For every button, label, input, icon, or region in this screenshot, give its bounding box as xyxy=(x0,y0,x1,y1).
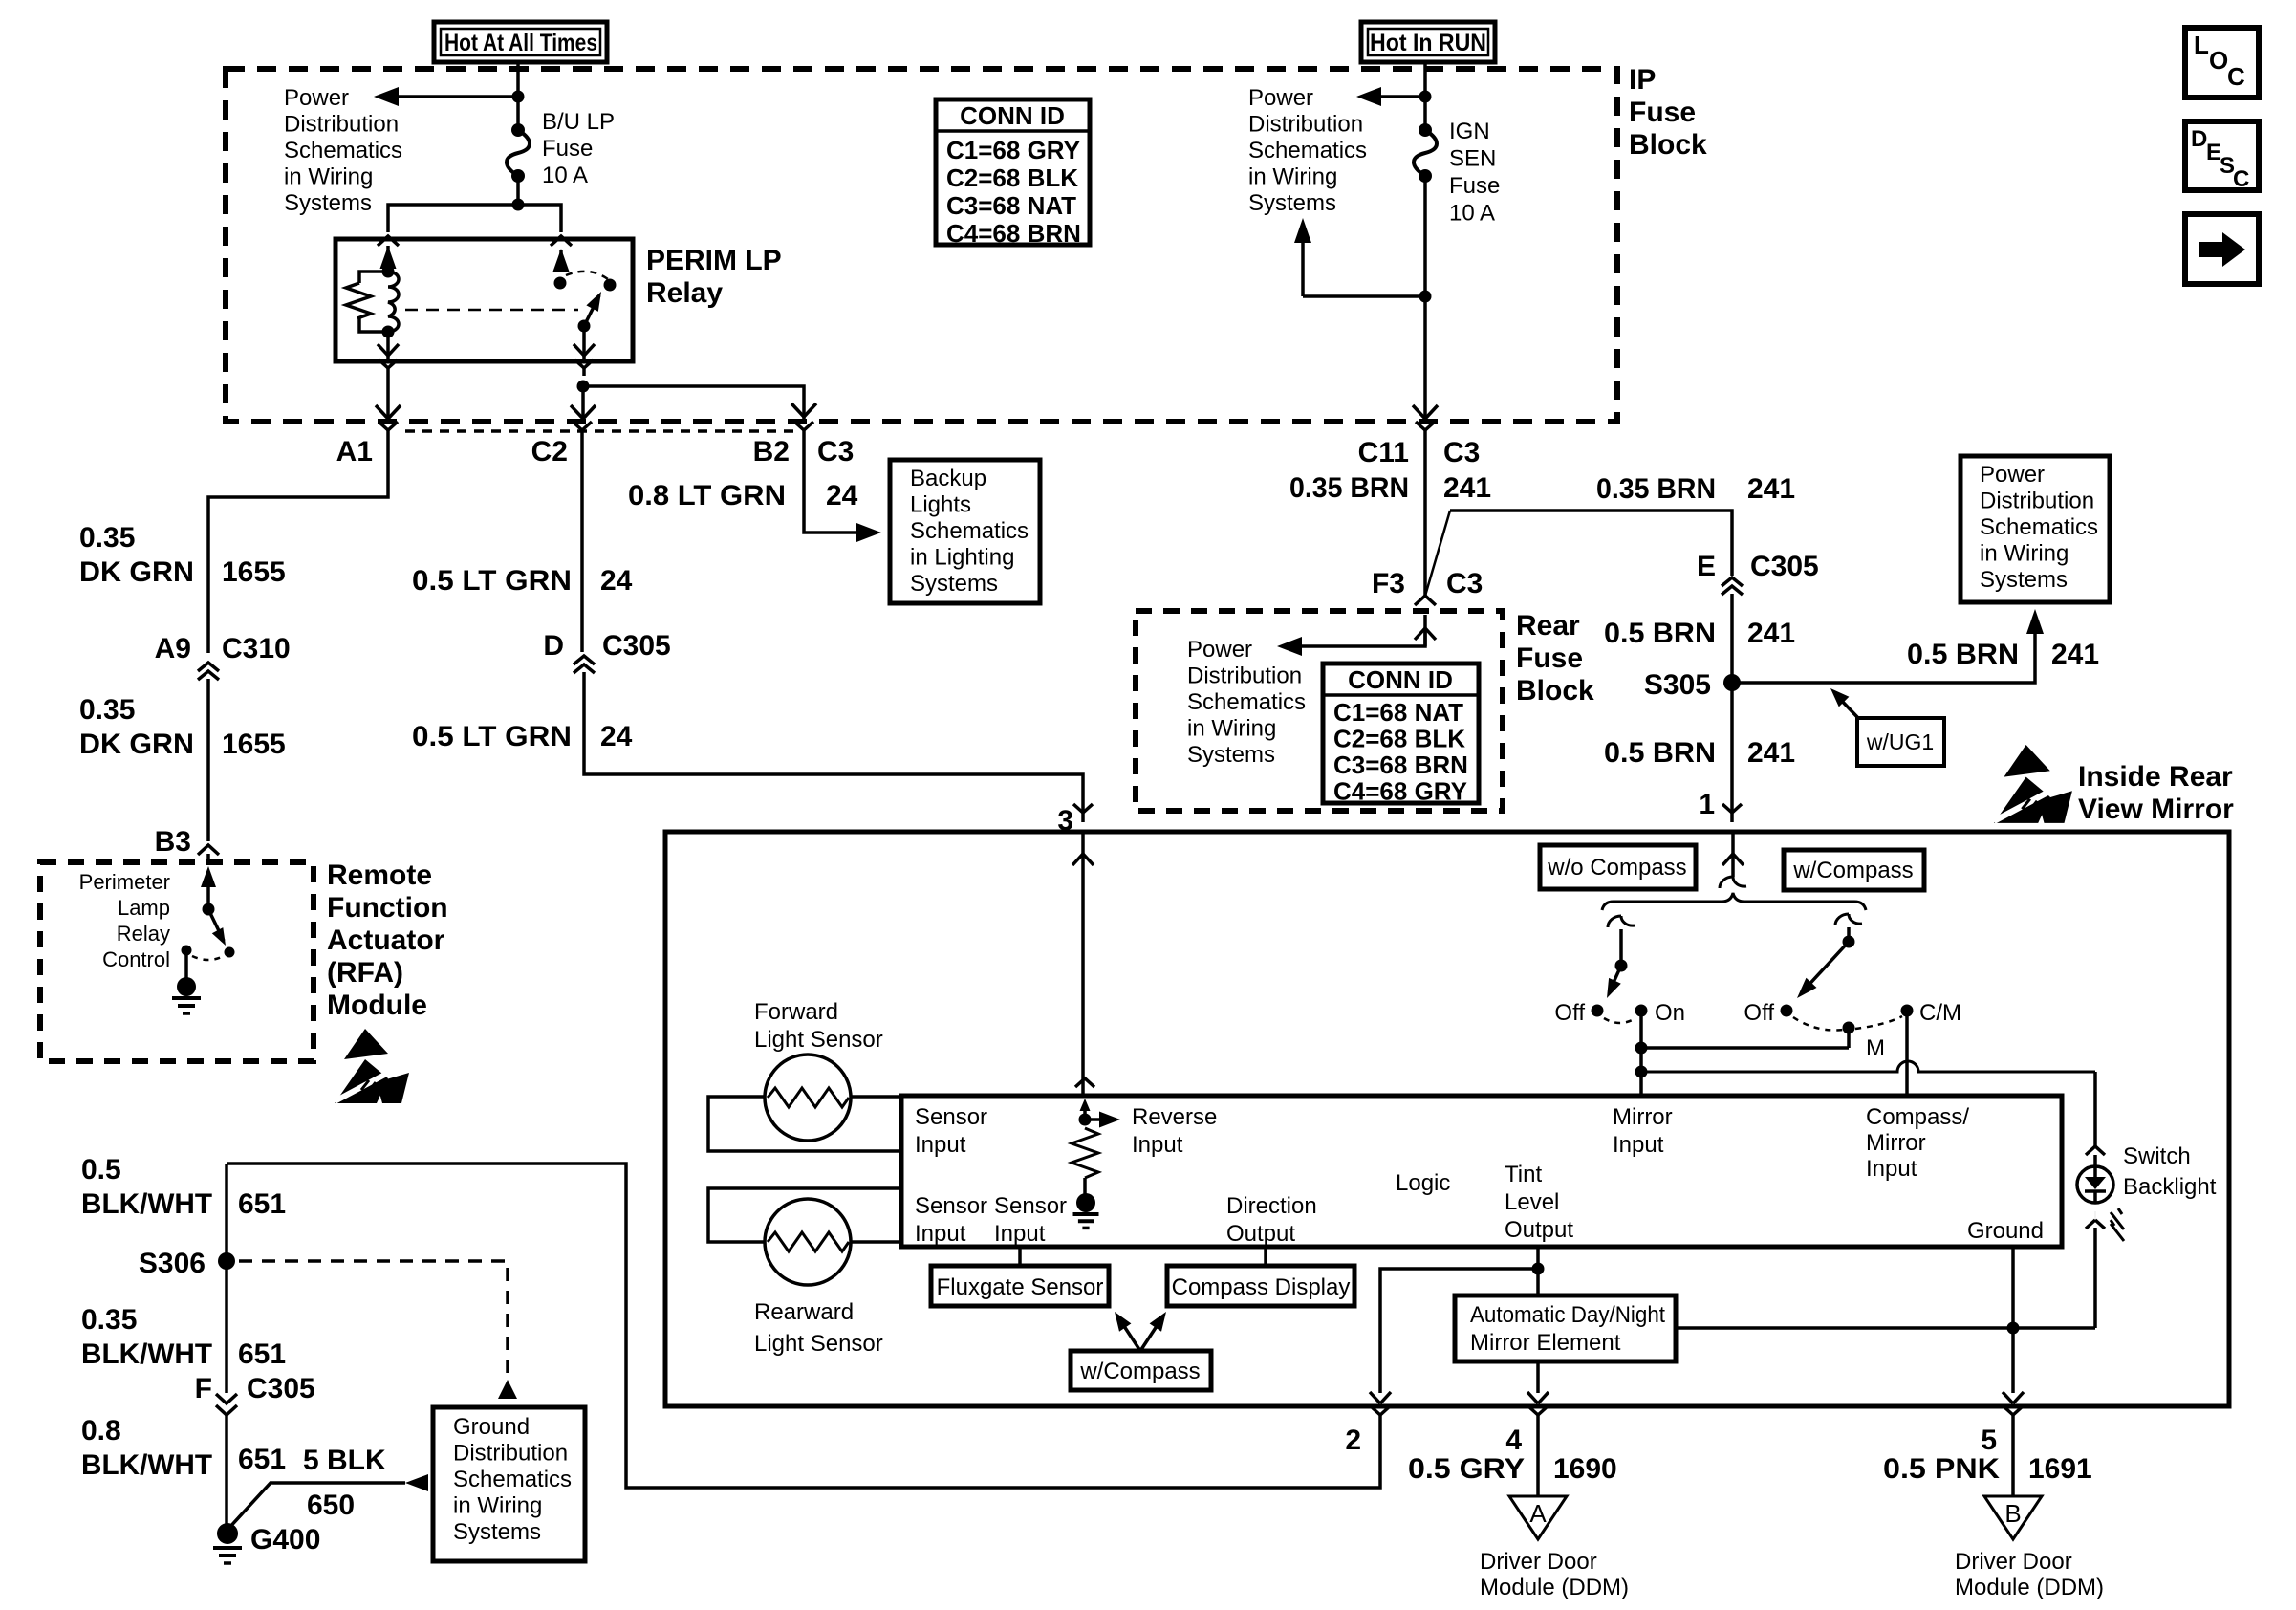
wire pin3 down to logic box xyxy=(1081,854,1085,1096)
connector F C305 double chevron (down) xyxy=(216,1394,237,1403)
chevron into logic box (sensor input) xyxy=(1075,1078,1094,1087)
svg-text:w/o Compass: w/o Compass xyxy=(1547,855,1686,881)
svg-text:241: 241 xyxy=(1747,737,1795,769)
svg-text:(RFA): (RFA) xyxy=(327,957,403,989)
svg-text:2: 2 xyxy=(1345,1425,1361,1456)
svg-text:PERIM LP: PERIM LP xyxy=(646,245,782,276)
svg-text:Relay: Relay xyxy=(646,277,723,309)
switch backlight LED chevron top xyxy=(2086,1146,2105,1155)
relay switch fixed contact dot xyxy=(554,277,567,290)
svg-text:E: E xyxy=(1697,551,1716,582)
svg-text:0.5 BRN: 0.5 BRN xyxy=(1604,618,1716,649)
svg-text:5: 5 xyxy=(1981,1425,1997,1456)
svg-text:Inside Rear: Inside Rear xyxy=(2078,761,2233,793)
connector Y below relay coil (IP block internal) xyxy=(379,359,388,368)
fuse B/U LP 10A xyxy=(511,123,525,137)
svg-text:On: On xyxy=(1655,1000,1685,1026)
svg-text:Off: Off xyxy=(1744,1000,1774,1026)
svg-text:L: L xyxy=(2194,31,2209,59)
svg-text:C4=68 BRN: C4=68 BRN xyxy=(946,219,1081,248)
svg-text:Schematics: Schematics xyxy=(453,1467,572,1492)
junction dot at B/U feed xyxy=(512,91,525,103)
wire E C305 down to S305 xyxy=(1730,594,1734,683)
svg-text:Input: Input xyxy=(1613,1132,1664,1158)
wire S306 down to F xyxy=(225,1261,228,1393)
svg-text:S305: S305 xyxy=(1644,669,1711,701)
ESD symbol (inside rear view mirror) xyxy=(1994,745,2072,823)
w/o compass switch hook xyxy=(1608,916,1621,927)
svg-text:Fuse: Fuse xyxy=(1449,173,1500,199)
connector Y below relay switch xyxy=(574,359,584,368)
svg-text:O: O xyxy=(2209,46,2228,75)
svg-text:in Wiring: in Wiring xyxy=(1187,716,1276,742)
svg-text:Power: Power xyxy=(1248,85,1313,111)
svg-text:Systems: Systems xyxy=(284,190,372,216)
svg-text:Output: Output xyxy=(1505,1217,1573,1243)
w/o compass switch wire xyxy=(1619,929,1623,962)
svg-text:C2=68 BLK: C2=68 BLK xyxy=(1333,725,1465,753)
connector B3 chevron xyxy=(198,845,219,855)
wire mirror element down to pin 4 xyxy=(1536,1361,1540,1393)
svg-text:BLK/WHT: BLK/WHT xyxy=(81,1449,212,1481)
arrow into connector row at A1 xyxy=(376,405,388,419)
switch backlight LED chevron bottom xyxy=(2086,1220,2095,1229)
wire On down to Mirror Input xyxy=(1639,1011,1643,1096)
triangle connector A xyxy=(1509,1496,1567,1539)
svg-text:Distribution: Distribution xyxy=(1248,112,1363,138)
wire sensor input to fluxgate sensor xyxy=(1018,1247,1022,1266)
junction dot IGN branch xyxy=(1419,291,1432,303)
connector pin 2 Y xyxy=(1371,1406,1380,1415)
arrow into mirror box pin 1 xyxy=(1731,834,1735,854)
svg-text:IP: IP xyxy=(1629,64,1656,96)
svg-text:in Wiring: in Wiring xyxy=(1980,541,2069,567)
RFA ESD symbol xyxy=(335,1029,409,1103)
svg-text:C2=68 BLK: C2=68 BLK xyxy=(946,163,1078,192)
w/o compass switch input dot xyxy=(1615,960,1628,972)
svg-text:Power: Power xyxy=(284,85,349,111)
wire C2 down to D xyxy=(580,440,584,652)
svg-text:Output: Output xyxy=(1226,1221,1295,1247)
svg-text:Control: Control xyxy=(102,947,170,971)
triangle connector B xyxy=(1984,1496,2042,1539)
splice S306 dot xyxy=(218,1252,235,1270)
svg-text:A: A xyxy=(1529,1499,1547,1528)
junction dot IGN feed xyxy=(1419,91,1432,103)
w/UG1 callout box xyxy=(1857,718,1944,766)
w/o Compass box xyxy=(1540,845,1696,889)
svg-text:Power: Power xyxy=(1187,637,1252,663)
arrow left to Power Distribution (IGN side) xyxy=(1374,95,1425,98)
wire S305 down to pin 1 xyxy=(1730,683,1734,811)
coupling hooks on pin1 wire xyxy=(1720,877,1733,888)
w/compass switch wire xyxy=(1847,927,1851,938)
svg-text:Backlight: Backlight xyxy=(2123,1174,2217,1200)
RFA switch arrow up from common xyxy=(206,880,210,909)
svg-text:Rearward: Rearward xyxy=(754,1299,854,1325)
Backup Lights Schematics box xyxy=(890,460,1040,603)
svg-text:C1=68 NAT: C1=68 NAT xyxy=(1333,698,1463,727)
reverse input ground symbol xyxy=(1073,1212,1099,1216)
svg-text:C3=68 NAT: C3=68 NAT xyxy=(946,191,1076,220)
junction dot tint/pin2 xyxy=(1532,1263,1545,1275)
svg-text:24: 24 xyxy=(826,480,858,511)
svg-text:Mirror Element: Mirror Element xyxy=(1470,1330,1621,1356)
w/compass switch input dot xyxy=(1843,936,1855,948)
splice S305 dot xyxy=(1723,674,1741,691)
reverse input arrow up xyxy=(1083,1107,1087,1120)
relay switch blade with arrowhead xyxy=(584,295,599,326)
connector B2/C3 Y xyxy=(794,422,804,430)
wire junction down to C2 row xyxy=(581,386,585,422)
svg-text:C4=68 GRY: C4=68 GRY xyxy=(1333,777,1467,806)
svg-text:C11: C11 xyxy=(1358,437,1409,468)
svg-text:Backup: Backup xyxy=(910,466,986,491)
RFA switch common dot xyxy=(203,903,215,916)
connector F3 chevron xyxy=(1415,596,1436,605)
svg-text:w/Compass: w/Compass xyxy=(1792,858,1913,883)
svg-text:Mirror: Mirror xyxy=(1866,1130,1926,1156)
wire pin1 down to coupling xyxy=(1731,854,1735,877)
svg-text:Logic: Logic xyxy=(1396,1170,1450,1196)
Rear Fuse Block dashed box xyxy=(1136,611,1503,811)
svg-text:in Wiring: in Wiring xyxy=(1248,164,1337,190)
svg-text:SEN: SEN xyxy=(1449,146,1496,172)
svg-text:Distribution: Distribution xyxy=(453,1441,568,1467)
svg-text:Driver Door: Driver Door xyxy=(1480,1549,1597,1575)
wire A1 down, left, down to A9 xyxy=(208,440,388,653)
svg-text:1691: 1691 xyxy=(2028,1453,2092,1485)
wire pin 4 down to triangle A xyxy=(1536,1425,1540,1496)
connector C2 Y xyxy=(573,422,582,430)
connector chevron into relay switch pin xyxy=(551,236,572,246)
svg-text:Schematics: Schematics xyxy=(1248,138,1367,163)
relay resistor (parallel with coil) xyxy=(359,272,388,283)
wire tint branch to pin 2 drop xyxy=(1380,1269,1538,1393)
wire 241 across to E C305 xyxy=(1450,511,1732,576)
connector E C305 double chevron xyxy=(1722,577,1743,586)
svg-text:Fuse: Fuse xyxy=(1629,97,1696,128)
svg-text:Fuse: Fuse xyxy=(1516,642,1583,674)
svg-text:C3: C3 xyxy=(1443,437,1480,468)
logic inner box xyxy=(901,1096,2062,1247)
wire pin 5 down to triangle B xyxy=(2011,1425,2015,1496)
svg-text:Ground: Ground xyxy=(1967,1218,2044,1244)
svg-text:in Wiring: in Wiring xyxy=(284,164,373,190)
Remote Function Actuator dashed box xyxy=(40,862,314,1061)
wire mirror element right to ground junction xyxy=(1676,1326,2095,1330)
svg-text:Function: Function xyxy=(327,892,448,924)
svg-text:Schematics: Schematics xyxy=(910,518,1029,544)
svg-text:0.5 PNK: 0.5 PNK xyxy=(1883,1453,2000,1485)
svg-text:C/M: C/M xyxy=(1919,1000,1961,1026)
svg-text:Systems: Systems xyxy=(1187,742,1275,768)
svg-text:0.5 BRN: 0.5 BRN xyxy=(1907,639,2019,670)
svg-text:1655: 1655 xyxy=(222,729,286,760)
svg-text:Forward: Forward xyxy=(754,999,838,1025)
svg-text:w/UG1: w/UG1 xyxy=(1866,729,1934,754)
rearward light sensor loop xyxy=(708,1188,901,1242)
svg-text:10 A: 10 A xyxy=(1449,201,1495,227)
relay coil bottom dot xyxy=(382,326,395,338)
svg-text:CONN ID: CONN ID xyxy=(960,101,1065,130)
arrow up into F3 inside rear fuse block xyxy=(1423,615,1427,646)
connector C11 Y xyxy=(1416,422,1425,430)
svg-text:DK GRN: DK GRN xyxy=(79,729,194,760)
connector row thin dashed line (C310 header) xyxy=(405,429,793,433)
svg-text:Sensor: Sensor xyxy=(994,1193,1067,1219)
svg-text:Input: Input xyxy=(1866,1156,1917,1182)
connector pin 3 Y xyxy=(1073,804,1083,813)
svg-text:Hot At All Times: Hot At All Times xyxy=(444,30,597,56)
w/Compass box xyxy=(1784,850,1924,890)
svg-text:0.5 GRY: 0.5 GRY xyxy=(1408,1453,1525,1485)
svg-text:Module (DDM): Module (DDM) xyxy=(1955,1575,2104,1600)
svg-text:C310: C310 xyxy=(222,633,291,664)
LOC reference box xyxy=(2185,28,2259,98)
svg-text:Block: Block xyxy=(1629,129,1707,161)
svg-text:Driver Door: Driver Door xyxy=(1955,1549,2072,1575)
wire C11 down to F3 xyxy=(1423,440,1427,596)
Fluxgate Sensor box xyxy=(931,1266,1109,1306)
svg-text:241: 241 xyxy=(1747,618,1795,649)
svg-text:Schematics: Schematics xyxy=(1980,514,2098,540)
svg-text:1690: 1690 xyxy=(1553,1453,1617,1485)
wire C/M down to Compass/Mirror Input xyxy=(1905,1011,1909,1096)
Ground Distribution Schematics box xyxy=(433,1407,585,1561)
connector A9 C310 double chevron xyxy=(198,663,219,671)
svg-text:Light Sensor: Light Sensor xyxy=(754,1027,883,1053)
svg-text:Light Sensor: Light Sensor xyxy=(754,1331,883,1357)
svg-text:0.35 BRN: 0.35 BRN xyxy=(1289,472,1409,504)
svg-text:Sensor: Sensor xyxy=(915,1193,987,1219)
S306 dashed branch to ground note xyxy=(239,1261,508,1379)
switch backlight LED xyxy=(2077,1166,2113,1203)
w/o compass Off contact dot xyxy=(1592,1005,1604,1017)
wire F3 down/left to power note arrow xyxy=(1295,628,1425,646)
svg-text:Systems: Systems xyxy=(1248,190,1336,216)
connector pin 5 Y xyxy=(2004,1406,2013,1415)
svg-text:Level: Level xyxy=(1505,1189,1559,1215)
Inside Rear View Mirror box xyxy=(665,832,2229,1406)
CONN ID table (rear fuse block) xyxy=(1323,664,1479,803)
svg-text:Module: Module xyxy=(327,990,427,1021)
svg-text:Relay: Relay xyxy=(117,922,170,946)
wire Hot In RUN down xyxy=(1423,63,1427,130)
G400 ground dot xyxy=(217,1523,238,1544)
svg-text:C3=68 BRN: C3=68 BRN xyxy=(1333,751,1468,779)
svg-text:24: 24 xyxy=(600,565,633,597)
svg-text:651: 651 xyxy=(238,1188,286,1220)
svg-text:Distribution: Distribution xyxy=(1980,489,2094,514)
relay switch common dot xyxy=(578,320,591,333)
RFA switch blade with arrowhead xyxy=(208,909,224,941)
svg-text:Compass Display: Compass Display xyxy=(1172,1274,1351,1300)
DESC reference box xyxy=(2185,121,2259,190)
svg-text:241: 241 xyxy=(2051,639,2099,670)
svg-text:Input: Input xyxy=(915,1221,966,1247)
svg-text:F: F xyxy=(195,1373,212,1404)
svg-text:24: 24 xyxy=(600,721,633,752)
relay switch output wire with arrow to C2 xyxy=(582,326,586,359)
svg-text:CONN ID: CONN ID xyxy=(1348,665,1453,694)
w/UG1 arrow to S305 wire xyxy=(1837,696,1858,718)
diagonal branch to 241 header xyxy=(1425,511,1450,596)
wire tint level output down xyxy=(1536,1247,1540,1295)
arrow into connector at C11 xyxy=(1413,405,1425,419)
svg-text:C3: C3 xyxy=(817,436,854,468)
svg-text:651: 651 xyxy=(238,1444,286,1475)
relay coil pin arrow (up) xyxy=(386,246,390,272)
svg-text:BLK/WHT: BLK/WHT xyxy=(81,1338,212,1370)
svg-text:S306: S306 xyxy=(139,1248,206,1279)
svg-text:10 A: 10 A xyxy=(542,163,588,188)
connector pin 4 Y xyxy=(1528,1406,1538,1415)
svg-text:Fuse: Fuse xyxy=(542,136,593,162)
svg-text:C3: C3 xyxy=(1446,568,1483,599)
wire fuse to relay feed split xyxy=(516,176,520,205)
svg-text:B: B xyxy=(2004,1499,2021,1528)
svg-text:Lamp: Lamp xyxy=(118,896,170,920)
svg-text:Distribution: Distribution xyxy=(1187,664,1302,689)
svg-text:0.35: 0.35 xyxy=(81,1304,137,1336)
svg-text:Actuator: Actuator xyxy=(327,925,445,956)
relay coil output wire with arrow to A1 xyxy=(386,332,390,359)
wire pin 2 down left and up (651 return) xyxy=(227,1164,1380,1488)
svg-text:in Wiring: in Wiring xyxy=(453,1493,542,1519)
arrow reference box xyxy=(2185,214,2259,284)
svg-text:in Lighting: in Lighting xyxy=(910,545,1014,571)
svg-text:F3: F3 xyxy=(1372,568,1405,599)
svg-text:Reverse: Reverse xyxy=(1132,1104,1217,1130)
wire 650 diagonal and across to ground note xyxy=(227,1483,405,1530)
svg-text:Schematics: Schematics xyxy=(1187,689,1306,715)
svg-text:241: 241 xyxy=(1747,473,1795,505)
wire from Hot At All Times down to B/U LP fuse xyxy=(516,63,520,130)
svg-text:B3: B3 xyxy=(155,826,191,858)
wire LED down to ground junction xyxy=(2093,1228,2097,1328)
svg-text:B2: B2 xyxy=(753,436,790,468)
svg-text:0.5 LT GRN: 0.5 LT GRN xyxy=(412,565,572,597)
CONN ID table (IP fuse block) xyxy=(936,99,1090,245)
relay PERIM LP box xyxy=(336,239,633,361)
RFA ground symbol xyxy=(172,996,201,1000)
w/compass Off contact dot xyxy=(1781,1005,1793,1017)
svg-text:BLK/WHT: BLK/WHT xyxy=(81,1188,212,1220)
svg-text:C305: C305 xyxy=(247,1373,315,1404)
connector A1 Y xyxy=(379,422,388,430)
relay switch NO contact dot xyxy=(604,279,617,292)
Power Distribution Schematics box (top right) xyxy=(1960,456,2110,602)
wire arrow left to Power Distribution (B/U side) xyxy=(392,95,518,98)
svg-text:IGN: IGN xyxy=(1449,119,1490,144)
svg-text:C2: C2 xyxy=(531,436,568,468)
relay switch pin arrow (up) xyxy=(559,250,563,271)
arrow into connector row at C3 drop xyxy=(791,403,804,417)
svg-text:C305: C305 xyxy=(1750,551,1819,582)
svg-text:1655: 1655 xyxy=(222,556,286,588)
svg-text:D: D xyxy=(543,630,564,662)
svg-text:651: 651 xyxy=(238,1338,286,1370)
svg-text:View Mirror: View Mirror xyxy=(2078,794,2234,825)
svg-text:C: C xyxy=(2227,62,2245,91)
w/compass M contact dot xyxy=(1843,1022,1855,1034)
wire split to relay coil and switch xyxy=(388,205,561,232)
w/Compass callout box (bottom) xyxy=(1071,1351,1211,1390)
svg-text:Off: Off xyxy=(1554,1000,1585,1026)
svg-text:0.8: 0.8 xyxy=(81,1415,121,1447)
svg-text:Direction: Direction xyxy=(1226,1193,1317,1219)
svg-text:C: C xyxy=(2233,166,2249,192)
svg-text:650: 650 xyxy=(307,1490,355,1521)
forward light sensor circle xyxy=(765,1055,851,1141)
fuse IGN SEN 10A xyxy=(1419,123,1432,137)
svg-text:Input: Input xyxy=(1132,1132,1183,1158)
wire On junction to switch backlight (with hop) xyxy=(1641,1061,2095,1072)
label: Hot At All Times box xyxy=(434,22,607,62)
RFA switch contact dot (moving end) xyxy=(225,947,235,958)
arrow up from branch to note xyxy=(1301,234,1305,296)
svg-text:Lights: Lights xyxy=(910,492,971,518)
junction dot On/lower xyxy=(1635,1066,1648,1078)
wire M across to On wire xyxy=(1641,1046,1849,1050)
brace splitting supply to both switches xyxy=(1602,893,1866,910)
G400 ground symbol xyxy=(213,1546,242,1550)
junction dot at relay feed xyxy=(512,199,525,211)
svg-text:Sensor: Sensor xyxy=(915,1104,987,1130)
rearward light sensor circle xyxy=(765,1199,851,1285)
RFA switch dashed arc xyxy=(192,956,224,960)
reverse input arrow right xyxy=(1085,1118,1101,1121)
svg-text:Fluxgate Sensor: Fluxgate Sensor xyxy=(937,1274,1104,1300)
svg-text:DK GRN: DK GRN xyxy=(79,556,194,588)
IP Fuse Block dashed box xyxy=(226,69,1617,422)
RFA ground dot xyxy=(177,977,196,996)
w/Compass arrows to fluxgate and compass display xyxy=(1118,1317,1140,1351)
svg-text:Rear: Rear xyxy=(1516,610,1580,642)
wire F down to G400 xyxy=(225,1415,228,1528)
svg-text:0.5 LT GRN: 0.5 LT GRN xyxy=(412,721,572,752)
svg-text:Input: Input xyxy=(994,1221,1046,1247)
svg-text:A1: A1 xyxy=(336,436,373,468)
forward light sensor loop xyxy=(708,1097,901,1151)
Automatic Day/Night Mirror Element box xyxy=(1455,1295,1676,1361)
connector D C305 double chevron xyxy=(574,656,595,664)
w/o compass On contact dot xyxy=(1635,1005,1648,1017)
svg-text:0.35 BRN: 0.35 BRN xyxy=(1596,473,1716,505)
label: Hot In RUN box xyxy=(1361,22,1495,62)
wire C2 feed across to B2/C3 drop xyxy=(583,386,804,419)
reverse input ground dot xyxy=(1076,1193,1095,1212)
svg-text:1: 1 xyxy=(1699,789,1715,820)
svg-text:D: D xyxy=(2191,126,2207,152)
wire C310 down to B3 xyxy=(206,679,210,841)
svg-text:Ground: Ground xyxy=(453,1414,530,1440)
svg-text:w/Compass: w/Compass xyxy=(1079,1359,1200,1384)
svg-text:Systems: Systems xyxy=(910,571,998,597)
reverse input resistor xyxy=(1072,1128,1098,1178)
arrow into mirror box pin 3 xyxy=(1081,834,1085,854)
wire ground pin down xyxy=(2011,1247,2015,1328)
svg-text:0.8 LT GRN: 0.8 LT GRN xyxy=(628,480,786,511)
svg-text:4: 4 xyxy=(1505,1425,1522,1456)
svg-text:Automatic Day/Night: Automatic Day/Night xyxy=(1470,1302,1665,1328)
svg-text:Compass/: Compass/ xyxy=(1866,1104,1969,1130)
svg-text:0.35: 0.35 xyxy=(79,694,135,726)
svg-text:241: 241 xyxy=(1443,472,1491,504)
RFA ground stem xyxy=(184,950,188,981)
svg-text:Schematics: Schematics xyxy=(284,138,402,163)
